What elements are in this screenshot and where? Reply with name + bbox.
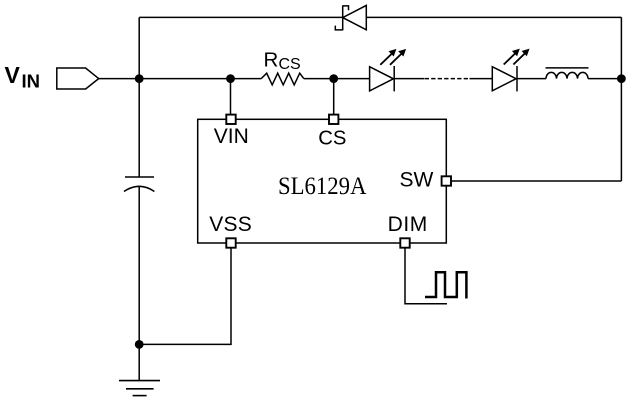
wire capacitor to ground [138,187,140,381]
svg-text:SW: SW [400,169,434,192]
wire CS junction down to pin [333,79,335,115]
LED D3 [492,66,517,91]
pin square SW [442,176,451,185]
svg-text:R: R [264,48,279,71]
svg-text:IN: IN [22,70,41,91]
svg-text:VIN: VIN [214,125,249,148]
diode D1 schottky [335,5,366,30]
LED D3 arrows [504,49,530,65]
wire LED2 to inductor [517,78,546,80]
wire RCS to LED1 [304,78,370,80]
ground [119,381,160,396]
wire dashes to LED2 [470,78,493,80]
wire VIN tag to resistor [99,78,262,80]
pin square VSS [226,238,235,247]
inductor L1 [546,68,589,79]
wire LED1 to dashes [394,78,424,80]
pin square CS [329,115,338,124]
LED D2 arrows [380,49,406,65]
input port tag VIN [57,68,99,89]
wire DIM pin down [405,248,447,304]
svg-text:CS: CS [318,128,346,150]
svg-text:CS: CS [279,56,301,73]
dashed wire [425,78,470,80]
IC U1 SL6129A box [198,119,447,243]
capacitor C1 curved plate [124,186,154,191]
junction node VIN [135,74,144,83]
capacitor C1 top plate [125,176,154,178]
wire right vertical [620,17,622,181]
junction right of RCS [329,74,338,83]
svg-text:DIM: DIM [388,213,428,236]
junction left of RCS [226,74,235,83]
pin square VIN [226,115,235,124]
PWM waveform symbol [425,272,466,298]
wire top horizontal left of diode [139,16,343,18]
wire VIN junction down to pin [230,79,232,115]
junction ground node [135,340,144,349]
junction right node [617,74,626,83]
wire top-left vertical [138,17,140,177]
resistor RCS [261,73,304,85]
label RCS [264,48,301,73]
svg-text:VSS: VSS [209,213,252,236]
LED D2 [370,66,395,91]
wire top horizontal right of diode [366,16,621,18]
wire VSS pin to ground node [139,248,231,344]
svg-text:SL6129A: SL6129A [278,173,367,200]
svg-text:V: V [5,62,21,88]
wire inductor to right node [588,78,621,80]
pin square DIM [400,238,409,247]
net label VIN [5,62,41,91]
wire SW to right vertical [452,180,622,182]
